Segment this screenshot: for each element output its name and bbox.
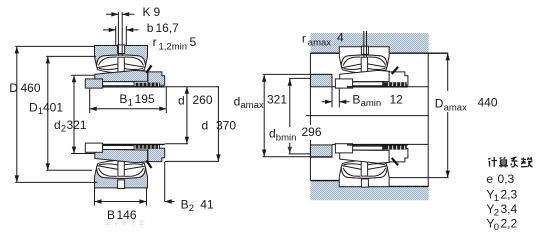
svg-text:2,2: 2,2	[501, 217, 518, 231]
svg-text:260: 260	[193, 93, 213, 107]
svg-text:B: B	[352, 93, 360, 107]
svg-text:12: 12	[390, 93, 404, 107]
svg-text:1: 1	[128, 98, 133, 109]
svg-text:D: D	[435, 97, 444, 111]
svg-text:amax: amax	[444, 103, 467, 114]
svg-text:296: 296	[302, 125, 322, 139]
svg-text:5: 5	[190, 35, 197, 49]
svg-text:2,3: 2,3	[501, 188, 518, 202]
svg-text:401: 401	[43, 101, 63, 115]
svg-text:370: 370	[216, 119, 236, 133]
svg-text:amax: amax	[240, 100, 263, 111]
svg-text:d: d	[269, 127, 276, 141]
svg-text:d: d	[202, 119, 209, 133]
svg-text:B: B	[119, 92, 127, 106]
svg-text:4: 4	[337, 31, 344, 45]
svg-text:1: 1	[494, 193, 499, 204]
svg-text:B: B	[181, 198, 189, 212]
svg-text:0: 0	[494, 222, 499, 233]
svg-text:d: d	[178, 94, 185, 108]
svg-text:460: 460	[21, 81, 41, 95]
svg-text:D: D	[9, 81, 18, 95]
svg-text:41: 41	[200, 198, 214, 212]
svg-text:9: 9	[154, 5, 161, 19]
svg-text:195: 195	[135, 92, 155, 106]
svg-text:16,7: 16,7	[156, 21, 180, 35]
svg-text:amin: amin	[361, 98, 382, 109]
svg-text:2: 2	[494, 208, 499, 219]
svg-text:d: d	[234, 95, 241, 109]
svg-text:0,3: 0,3	[498, 172, 515, 186]
svg-text:amax: amax	[308, 38, 331, 49]
svg-text:2: 2	[61, 124, 66, 135]
svg-text:r: r	[153, 35, 157, 49]
svg-text:r: r	[302, 32, 306, 46]
svg-text:440: 440	[478, 96, 498, 110]
svg-text:D: D	[29, 101, 38, 115]
svg-text:2: 2	[189, 203, 194, 214]
svg-text:K: K	[143, 5, 151, 19]
svg-text:321: 321	[67, 118, 87, 132]
svg-text:3,4: 3,4	[501, 202, 518, 216]
svg-text:1,2min: 1,2min	[159, 42, 188, 53]
svg-text:d: d	[54, 118, 61, 132]
svg-text:321: 321	[267, 93, 287, 107]
svg-text:e: e	[486, 172, 493, 186]
svg-text:b: b	[147, 21, 154, 35]
svg-text:bmin: bmin	[276, 133, 297, 144]
